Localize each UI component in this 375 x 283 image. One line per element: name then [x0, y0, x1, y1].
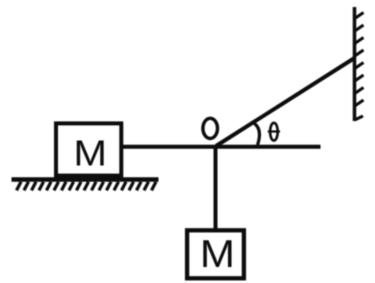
wire: diagonal string from node O to wall	[216, 58, 355, 146]
ground hatching	[17, 182, 157, 191]
wall hatching	[354, 13, 364, 121]
svg-text:M: M	[200, 231, 235, 275]
node O label	[203, 118, 218, 138]
wire: horizontal string from M1 to node O and beyond	[121, 145, 321, 149]
ground (left floor line)	[12, 177, 159, 182]
label theta (angle)	[268, 123, 280, 141]
wall (right, vertical)	[353, 7, 357, 121]
angle arc at node O	[253, 122, 260, 145]
mass block M1 (left, on ground)	[56, 123, 121, 175]
mass block M2 (hanging, bottom)	[187, 230, 244, 278]
wire: vertical string from node O to M2	[214, 147, 218, 230]
svg-text:M: M	[73, 133, 106, 174]
